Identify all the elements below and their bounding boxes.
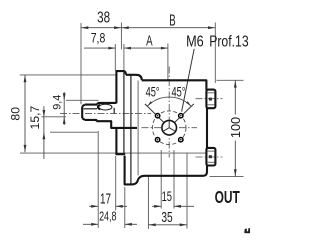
wire bbox=[217, 79, 244, 81]
dimension 80 bbox=[24, 75, 26, 152]
svg-text:15: 15 bbox=[162, 188, 173, 205]
port boss upper bbox=[206, 90, 215, 109]
keyway ellipse bbox=[99, 104, 112, 110]
wire bbox=[66, 99, 99, 101]
wire bbox=[81, 27, 121, 29]
pump body outline bbox=[116, 71, 207, 184]
centerline vertical bbox=[168, 67, 170, 158]
wire bbox=[137, 81, 139, 176]
svg-text:OUT: OUT bbox=[215, 188, 241, 208]
wire bbox=[142, 127, 198, 129]
shaft key line bbox=[84, 108, 98, 110]
svg-text:Prof.13: Prof.13 bbox=[209, 32, 249, 50]
centerline lower port bbox=[196, 156, 223, 158]
svg-text:45°: 45° bbox=[146, 85, 160, 100]
node 45 right bbox=[172, 85, 186, 100]
wire bbox=[97, 131, 99, 228]
wire bbox=[124, 187, 126, 228]
wire bbox=[20, 152, 207, 154]
wire bbox=[130, 75, 132, 184]
wire arc 45 bbox=[148, 97, 191, 106]
wire bbox=[20, 74, 117, 76]
svg-text:B: B bbox=[169, 11, 175, 29]
wire bbox=[84, 47, 115, 49]
wire bbox=[42, 116, 67, 118]
node B bbox=[169, 11, 175, 29]
wire bbox=[173, 150, 175, 209]
svg-text:80: 80 bbox=[9, 107, 23, 121]
center bore circle bbox=[162, 120, 177, 135]
svg-text:100: 100 bbox=[228, 117, 243, 138]
node 7,8 bbox=[91, 30, 106, 46]
wire bbox=[114, 44, 116, 71]
keyway end mark bbox=[113, 108, 115, 114]
bolt circle (dashed) bbox=[152, 111, 186, 145]
wire bbox=[120, 23, 122, 50]
svg-text:15,7: 15,7 bbox=[28, 106, 42, 130]
node Prof.13 label bbox=[209, 32, 249, 50]
svg-text:45°: 45° bbox=[172, 85, 186, 100]
svg-text:17: 17 bbox=[100, 191, 111, 207]
svg-text:A: A bbox=[146, 33, 153, 49]
bolt hole 2 bbox=[179, 114, 183, 118]
dimension 35 bbox=[148, 224, 187, 226]
dimension 17 bbox=[89, 205, 98, 207]
dimension 100 bbox=[234, 80, 236, 114]
wire bbox=[124, 47, 168, 49]
wire bbox=[214, 23, 216, 84]
wire ray right 45 bbox=[169, 104, 194, 128]
wire bbox=[160, 150, 162, 209]
dimension 9,4 bbox=[63, 92, 65, 125]
wire bbox=[123, 44, 125, 71]
node OUT bbox=[215, 188, 241, 208]
node 45 left bbox=[146, 85, 160, 100]
dimension 15,7 bbox=[43, 106, 45, 159]
wire bbox=[50, 131, 98, 133]
wire leader M6 bbox=[182, 49, 195, 112]
wire bbox=[147, 177, 149, 230]
svg-text:7,8: 7,8 bbox=[91, 30, 106, 46]
node A bbox=[146, 33, 153, 49]
shaft bbox=[82, 103, 137, 128]
svg-text:35: 35 bbox=[161, 209, 172, 225]
wire bbox=[186, 153, 188, 229]
dimension 15 bbox=[152, 205, 161, 207]
svg-text:M6: M6 bbox=[186, 32, 204, 49]
svg-text:24,8: 24,8 bbox=[99, 210, 116, 224]
node 38 bbox=[97, 8, 110, 26]
flange rear edge bbox=[123, 71, 125, 154]
port boss lower bbox=[206, 148, 215, 166]
bolt hole 3 bbox=[155, 138, 159, 142]
centerline shaft axis bbox=[60, 113, 151, 115]
svg-text:38: 38 bbox=[97, 8, 110, 26]
wire bbox=[210, 176, 244, 178]
spokes bbox=[168, 121, 170, 127]
wire bbox=[167, 44, 169, 80]
dimension 24,8 bbox=[83, 223, 98, 225]
wire bbox=[121, 27, 215, 29]
centerline upper port bbox=[196, 98, 223, 100]
wire ray left 45 bbox=[145, 104, 169, 128]
node M6 label bbox=[186, 32, 204, 49]
bolt hole 4 bbox=[179, 138, 183, 142]
bolt hole 1 bbox=[155, 114, 159, 118]
svg-text:9,4: 9,4 bbox=[51, 95, 63, 110]
wire bbox=[115, 156, 117, 211]
corner mark bbox=[244, 228, 253, 233]
wire bbox=[80, 23, 82, 104]
